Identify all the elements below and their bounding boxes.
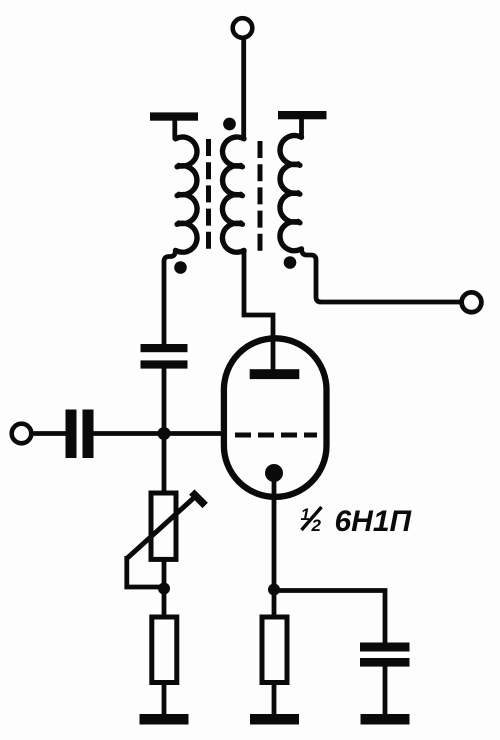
wire L1 bottom exit xyxy=(164,250,176,345)
wire J1 to C2 xyxy=(34,431,66,436)
wire R1 to ground xyxy=(162,682,167,715)
anode plate V1 xyxy=(250,369,300,379)
label ½ (slash) xyxy=(302,507,322,530)
arrow R3 head bar xyxy=(192,492,205,505)
node grid junction xyxy=(158,427,171,440)
core line (right dashed) xyxy=(258,141,263,251)
wire grid node to R3 xyxy=(162,434,167,494)
capacitor C2 (right plate) xyxy=(83,410,94,459)
ground GND2 xyxy=(250,714,299,725)
wire cathode node to R2 xyxy=(272,590,277,618)
resistor R2 (cathode) xyxy=(262,617,287,683)
svg-text:2: 2 xyxy=(311,516,322,535)
wire R2 to ground xyxy=(272,682,277,715)
inductor L1 (left winding) xyxy=(176,137,198,252)
polarity dot L3 xyxy=(284,256,297,269)
grid V1 (dashed) xyxy=(235,433,317,438)
core line (left dashed) xyxy=(206,139,211,251)
terminal bar L3 top xyxy=(278,111,327,119)
cathode dot V1 xyxy=(265,464,283,482)
node wiper junction xyxy=(158,583,170,595)
wire L3 stem xyxy=(299,118,304,138)
inductor L3 (right winding) xyxy=(280,136,302,251)
capacitor C1 (top plate) xyxy=(141,344,188,352)
wire J2 to L2 top xyxy=(241,39,246,140)
terminal bar L1 top xyxy=(150,112,198,120)
tube V1 envelope xyxy=(224,338,327,497)
terminal J1 (input) xyxy=(12,424,32,444)
capacitor C3 (top plate) xyxy=(360,643,410,652)
wire C3 to ground xyxy=(383,666,388,715)
ground GND3 xyxy=(361,714,410,725)
wire C1 to grid node xyxy=(162,368,167,436)
wire cathode lead xyxy=(272,473,277,591)
ground GND1 xyxy=(140,714,189,725)
resistor R1 (grid leak) xyxy=(152,617,177,683)
wire R3 wiper to bottom xyxy=(127,556,164,587)
svg-text:6Н1П: 6Н1П xyxy=(335,505,413,538)
terminal J2 (B+ top terminal) xyxy=(233,18,253,38)
wire cathode node to C3 xyxy=(274,591,385,644)
polarity dot L1 xyxy=(174,261,187,274)
wire L3 to output terminal xyxy=(302,249,462,303)
resistor R3 (variable, body) xyxy=(151,493,176,559)
polarity dot L2 xyxy=(223,118,236,131)
node cathode junction xyxy=(268,584,280,596)
capacitor C3 (bottom plate) xyxy=(360,658,410,667)
terminal J3 (output) xyxy=(462,292,482,312)
capacitor C1 (bottom plate) xyxy=(141,360,188,368)
arrow R3 shaft xyxy=(127,495,197,559)
wire C2 to tube grid xyxy=(94,431,223,436)
wire L1 stem xyxy=(172,119,177,140)
capacitor C2 (left plate) xyxy=(66,410,77,459)
wire R3 to R1 xyxy=(162,559,167,618)
inductor L2 (centre winding) xyxy=(222,137,244,252)
wire L2 to anode xyxy=(244,250,273,370)
